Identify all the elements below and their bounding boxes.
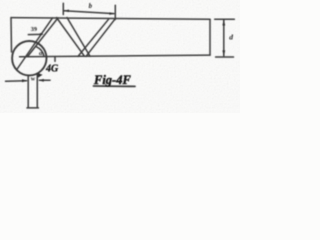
svg-text:w: w — [31, 77, 36, 83]
nose circle — [12, 41, 46, 75]
face line F2 — [28, 18, 59, 57]
svg-text:α: α — [39, 50, 43, 57]
V notch right inner line — [78, 19, 109, 56]
w dimension right arrowhead — [38, 79, 44, 82]
b dimension right arrowhead — [109, 12, 114, 15]
tab right side — [36, 74, 38, 108]
d dimension line — [223, 20, 225, 56]
svg-text:d: d — [229, 32, 233, 41]
b dimension right extension tick — [114, 5, 116, 19]
d dimension top arrowhead — [222, 19, 225, 25]
4G leader tick — [54, 57, 56, 61]
b dimension line — [64, 11, 114, 14]
label 39 leader arrow line — [28, 33, 40, 35]
b dimension left extension tick — [62, 3, 64, 14]
w dimension right arrow line — [40, 79, 51, 81]
alpha angle arc — [37, 47, 45, 56]
V notch right outer line — [86, 19, 115, 56]
w dimension left arrowhead — [22, 79, 28, 82]
bar top edge — [11, 18, 210, 20]
w dimension left arrow line — [6, 80, 27, 83]
b dimension left arrowhead — [64, 10, 69, 13]
V notch left outer line — [57, 18, 85, 57]
tab left side — [27, 75, 29, 107]
d dimension bottom extension line — [216, 56, 234, 58]
bar left edge — [10, 18, 13, 52]
svg-text:4G: 4G — [45, 64, 59, 75]
d dimension top extension line — [215, 18, 235, 20]
d dimension bottom arrowhead — [222, 50, 225, 56]
bar bottom edge — [20, 55, 211, 57]
svg-text:b: b — [89, 3, 93, 10]
bar right edge — [209, 19, 211, 55]
tab bottom cap — [27, 107, 38, 109]
svg-text:Fig-4F: Fig-4F — [93, 73, 131, 87]
circle arc arrowhead — [37, 73, 43, 78]
V notch left inner line — [67, 18, 90, 57]
face line F1 — [17, 18, 53, 70]
svg-text:39: 39 — [31, 26, 37, 33]
label 39 arrowhead — [40, 33, 44, 36]
Fig-4F underline — [94, 85, 136, 87]
